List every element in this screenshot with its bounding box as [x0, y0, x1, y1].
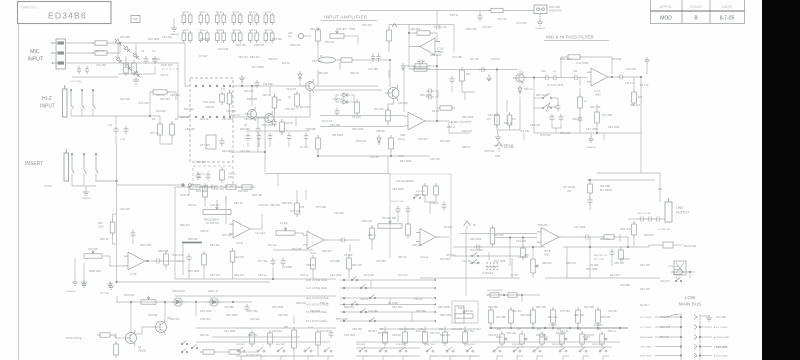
resistor R97	[200, 350, 217, 354]
svg-text:63V: 63V	[228, 176, 233, 179]
wire bottom stub 14	[536, 356, 538, 360]
wire locut left vert	[533, 78, 535, 134]
svg-text:PAD SW: PAD SW	[161, 63, 173, 67]
wire drive down a	[566, 247, 568, 278]
junction bus R 4	[699, 354, 701, 356]
capacitor C11 supply	[232, 31, 242, 44]
wire ret bottom	[117, 281, 271, 283]
connector J5 line out jack	[665, 198, 672, 222]
svg-text:R64 33p: R64 33p	[547, 105, 557, 109]
resistor R5	[158, 121, 163, 138]
gain pot pad r1p4	[216, 85, 218, 87]
svg-text:MUTE SW: MUTE SW	[684, 244, 697, 248]
wire mute fet rail	[450, 69, 518, 71]
svg-text:R59 N15: R59 N15	[600, 315, 611, 319]
svg-text:R92 4K7: R92 4K7	[630, 103, 641, 107]
resistor R85	[490, 225, 495, 247]
wire r75 up	[296, 190, 298, 200]
capacitor C33	[617, 75, 625, 80]
wire q4 q5 link	[135, 327, 155, 334]
wire mute rail	[563, 246, 649, 248]
wire c71 stub	[258, 142, 260, 147]
capacitor C16	[256, 126, 261, 134]
wire bottom stub 11	[469, 356, 471, 360]
wire to line out vert	[640, 133, 642, 173]
wire bl rail	[116, 301, 252, 303]
svg-text:FX 2 SEND: FX 2 SEND	[640, 327, 652, 329]
wire stub 24	[236, 327, 336, 329]
capacitor C41	[154, 259, 162, 264]
diode D11 mute	[518, 85, 522, 95]
aux arrow 3	[433, 297, 436, 300]
switch aux 2	[360, 285, 367, 289]
junction bus L 4	[680, 345, 682, 347]
wire bottom stub 8	[402, 356, 404, 360]
resistor R122 fader net	[423, 329, 428, 346]
svg-text:C19 4K7: C19 4K7	[418, 137, 429, 141]
svg-text:IC14 100R: IC14 100R	[576, 61, 589, 65]
svg-text:C22 22K: C22 22K	[120, 207, 130, 211]
wire stub 32	[95, 180, 117, 182]
svg-text:MAIN BUS: MAIN BUS	[679, 302, 701, 307]
svg-text:IC8 100R: IC8 100R	[332, 133, 343, 137]
potentiometer VR15 row B	[580, 331, 588, 347]
svg-text:C87 68K: C87 68K	[376, 259, 386, 263]
wire stub 3	[339, 62, 341, 70]
ground mf	[495, 134, 501, 140]
potentiometer VR3 gain	[319, 57, 336, 63]
junction bus L 2	[680, 326, 682, 328]
diode D1 rf clamp	[113, 37, 123, 47]
wire drive vert2	[511, 258, 513, 278]
svg-text:R95 10K: R95 10K	[574, 313, 584, 317]
capacitor C10 supply	[216, 31, 226, 44]
capacitor C70 decouple	[246, 133, 251, 141]
svg-text:C98 1K: C98 1K	[200, 229, 209, 233]
svg-text:R28 15K: R28 15K	[538, 223, 548, 227]
wire bus out 1	[700, 326, 712, 328]
wire mf gnd stub	[497, 130, 498, 134]
svg-text:C34 1u: C34 1u	[360, 297, 369, 301]
wire c33 to node	[624, 76, 641, 78]
junction filter out	[611, 76, 613, 78]
svg-text:C34 68K: C34 68K	[282, 265, 292, 269]
wire ladder drop 4	[552, 326, 554, 328]
junction q4	[130, 301, 132, 303]
wire caps feed	[628, 218, 639, 220]
svg-text:R47 100R: R47 100R	[252, 65, 264, 69]
junction feed	[589, 179, 591, 181]
svg-text:R32 4K7: R32 4K7	[160, 97, 171, 101]
svg-text:C70 4K7: C70 4K7	[482, 25, 493, 29]
svg-text:IC2-A: IC2-A	[310, 252, 317, 255]
wire mic cold	[66, 62, 171, 64]
wire eq3 out	[436, 236, 449, 238]
gain pot pad r2p4	[216, 116, 218, 118]
svg-text:R29 1K: R29 1K	[350, 71, 359, 75]
capacitor C13 supply	[264, 31, 274, 44]
wire ladder drop 5	[577, 326, 579, 328]
wire r66 top	[113, 214, 117, 219]
black margin bar right	[762, 0, 800, 360]
capacitor C6 supply	[249, 13, 259, 26]
wire stub 15	[305, 190, 307, 200]
diode D4 rf clamp	[114, 55, 124, 65]
svg-text:R23 100K: R23 100K	[226, 313, 238, 317]
fader pad grid	[486, 262, 498, 270]
wire mic mid	[66, 52, 96, 54]
svg-text:D12 1u: D12 1u	[268, 243, 277, 247]
svg-text:R61 47u: R61 47u	[250, 55, 260, 59]
svg-text:▶ RIGHT MAIN: ▶ RIGHT MAIN	[714, 336, 730, 339]
bus arrow 2	[694, 325, 697, 330]
junction aux 4	[343, 303, 345, 305]
svg-text:R47 1u: R47 1u	[96, 49, 105, 53]
wire hi-z drop 2	[81, 109, 83, 117]
ground chassis grid	[171, 25, 177, 31]
wire aux bus 1	[340, 279, 433, 281]
svg-text:C17 1u: C17 1u	[560, 329, 569, 333]
svg-text:SW6 MIX: SW6 MIX	[396, 344, 406, 346]
op-amp IC3-A	[587, 68, 612, 86]
svg-text:BAL DRIVE: BAL DRIVE	[600, 189, 612, 192]
switch aux 6	[369, 318, 376, 322]
capacitor C9 supply	[199, 31, 209, 44]
gain pot dashed box	[190, 78, 233, 162]
wire r68 link	[204, 199, 206, 207]
svg-text:PAN: PAN	[458, 306, 464, 310]
wire grid gnd stub	[173, 18, 175, 25]
capacitor C22B	[434, 25, 442, 29]
wire stub 14	[225, 196, 227, 204]
wire sw3 link	[551, 98, 558, 103]
svg-text:R74 1u: R74 1u	[498, 17, 507, 21]
svg-text:J5 TRS OUT: J5 TRS OUT	[658, 229, 671, 231]
wire low rail	[318, 155, 430, 157]
resistor R74	[202, 251, 207, 268]
resistor R12B	[280, 119, 285, 135]
wire eq rail mid2	[273, 249, 313, 251]
svg-text:FX 1 SEND: FX 1 SEND	[640, 317, 652, 319]
wire c70 stub	[247, 142, 249, 147]
wire fb loop left	[561, 57, 565, 78]
svg-text:C8 68K: C8 68K	[344, 253, 353, 257]
wire hpf to mid	[449, 121, 470, 133]
svg-text:R28 68K: R28 68K	[306, 127, 316, 131]
wire r42 lead	[633, 77, 635, 89]
transistor Q3	[385, 85, 399, 101]
wire stub 1	[269, 86, 271, 96]
junction ret bot	[115, 281, 117, 283]
svg-text:C83 0R: C83 0R	[392, 333, 401, 337]
wire ic1b bottom rail	[409, 68, 450, 71]
wire r12 down	[274, 108, 276, 118]
svg-text:R36 100K: R36 100K	[140, 243, 152, 247]
aux mix box	[455, 306, 464, 323]
insert contact 3	[95, 153, 98, 173]
wire gain out hot	[233, 85, 258, 87]
svg-text:AUX 2 (PRE) FADE: AUX 2 (PRE) FADE	[306, 287, 327, 290]
wire c39 dn	[589, 204, 591, 210]
svg-text:IC79 10K: IC79 10K	[540, 133, 551, 137]
resistor R110	[316, 329, 321, 348]
svg-text:R93 R94 MUTE: R93 R94 MUTE	[487, 290, 503, 292]
wire r32 link	[462, 84, 475, 92]
svg-text:R89 2K2: R89 2K2	[270, 203, 281, 207]
svg-text:R1 2K2: R1 2K2	[640, 303, 649, 307]
wire aux drop c	[411, 312, 413, 321]
resistor R86	[521, 245, 526, 260]
gain pot pad r1p5	[223, 85, 225, 87]
svg-text:C10 N47: C10 N47	[518, 255, 529, 259]
resistor R94	[505, 293, 520, 297]
svg-text:R MAIN: R MAIN	[594, 324, 603, 327]
svg-text:LMF EQ BAND: LMF EQ BAND	[396, 179, 414, 183]
svg-text:C16 2K2: C16 2K2	[234, 255, 245, 259]
resistor R4 mic filter	[132, 60, 137, 76]
wire ic5b rail2	[495, 237, 537, 239]
svg-text:R94 N47: R94 N47	[296, 301, 307, 305]
svg-text:C51 33p: C51 33p	[162, 35, 172, 39]
svg-text:C46 0R: C46 0R	[608, 309, 617, 313]
wire fb right	[430, 65, 437, 67]
ground filter low	[588, 136, 594, 142]
svg-text:R58 1K: R58 1K	[306, 263, 315, 267]
wire bus in 4	[655, 346, 681, 348]
resistor R6	[170, 121, 175, 138]
ground vr4 b	[81, 279, 87, 285]
svg-text:C27 100R: C27 100R	[586, 127, 598, 131]
svg-text:ED34B6: ED34B6	[48, 11, 87, 21]
svg-text:R44 100R: R44 100R	[586, 267, 598, 271]
svg-text:D75 68K: D75 68K	[560, 309, 570, 313]
junction bus R 2	[699, 336, 701, 338]
pad circle b	[189, 184, 192, 187]
svg-text:INPUT AMPLIFIER: INPUT AMPLIFIER	[324, 15, 368, 20]
resistor R103 ladder	[551, 307, 556, 326]
switch row bottom 13	[513, 347, 523, 356]
resistor R22	[387, 27, 392, 44]
op-amp IC1-B	[409, 38, 440, 55]
gain pot pad r2p5	[223, 116, 225, 118]
junction fb	[436, 120, 438, 122]
capacitor C14 blk	[124, 126, 129, 134]
svg-text:R61 1K: R61 1K	[660, 335, 669, 339]
aux arrow 2	[433, 287, 436, 290]
wire r124 up	[464, 326, 466, 329]
ground bl2	[107, 281, 113, 287]
wire ladder drop 6	[597, 326, 599, 328]
svg-text:C25 2K2: C25 2K2	[626, 67, 637, 71]
junction q5	[164, 301, 166, 303]
wire r43 lead dn	[579, 108, 581, 115]
wire r44 bottom	[596, 126, 598, 133]
wire r73 down	[232, 265, 234, 279]
svg-text:LEFT MAIN: LEFT MAIN	[640, 346, 652, 349]
wire mic hot to pad	[110, 42, 170, 44]
svg-text:C8 N15: C8 N15	[352, 115, 361, 119]
svg-text:R86 2K2: R86 2K2	[282, 201, 293, 205]
wire fader feed rail	[587, 179, 655, 181]
resistor R27	[316, 135, 321, 152]
svg-text:IC16 1K: IC16 1K	[180, 193, 190, 197]
wire r67 out	[175, 260, 183, 262]
wire filter low rail	[534, 132, 641, 134]
svg-text:OUTPUT: OUTPUT	[676, 211, 689, 215]
svg-text:R75 15K: R75 15K	[316, 205, 326, 209]
diode D2 rf clamp	[122, 44, 132, 54]
bus arrow 4	[694, 344, 697, 349]
svg-text:D30 10K: D30 10K	[278, 313, 288, 317]
pan pot box	[452, 301, 478, 323]
wire eq3 link1	[397, 215, 399, 222]
wire hi-z drop 3	[92, 109, 94, 117]
wire hiz mid link	[115, 116, 117, 125]
switch row bottom 3	[277, 347, 287, 356]
svg-text:R77 33p: R77 33p	[258, 259, 268, 263]
wire mic mid join	[110, 43, 120, 53]
capacitor C8 supply	[182, 31, 192, 44]
svg-text:AUX 1 (PRE) FADE: AUX 1 (PRE) FADE	[306, 279, 327, 282]
svg-text:R81 2K2: R81 2K2	[392, 305, 403, 309]
svg-text:R74 33p: R74 33p	[612, 57, 622, 61]
svg-text:CHASSIS: CHASSIS	[66, 290, 76, 293]
switch row bottom 17	[599, 347, 609, 356]
svg-text:C52 N47 C53: C52 N47 C53	[390, 201, 404, 203]
wire bottom stub 2	[260, 356, 262, 360]
wire q1 emitter	[256, 118, 265, 152]
transistor Q5	[153, 319, 167, 335]
svg-text:CHASSIS: CHASSIS	[586, 146, 596, 149]
junction gain c	[264, 151, 266, 153]
wire d11 dn	[519, 97, 521, 130]
resistor R83 lmf	[434, 183, 439, 198]
svg-text:R12: R12	[277, 99, 282, 102]
connector J1 pin 3	[52, 61, 64, 64]
resistor R80	[370, 225, 375, 242]
wire r98 out	[243, 351, 258, 353]
svg-text:R56 N15: R56 N15	[158, 249, 169, 253]
svg-text:R62 22K: R62 22K	[310, 27, 320, 31]
capacitor C50	[339, 238, 347, 243]
svg-text:C32: C32	[573, 70, 578, 73]
insert contact 2	[83, 153, 86, 173]
svg-text:AUX 3 (POST) FADE: AUX 3 (POST) FADE	[306, 297, 329, 300]
test point TP1 box	[131, 16, 140, 23]
svg-text:D84 33p: D84 33p	[548, 315, 558, 319]
svg-text:R18 1u: R18 1u	[447, 125, 456, 129]
svg-text:R68B 100K: R68B 100K	[89, 271, 101, 273]
svg-text:4580: 4580	[544, 254, 550, 257]
gain pot pad r2p6	[229, 116, 231, 118]
capacitor C2b xlr	[85, 66, 89, 74]
transistor Q1B	[262, 111, 274, 125]
svg-text:R28 10K: R28 10K	[247, 97, 257, 101]
wire stub 17	[465, 247, 467, 256]
wire r95 up	[115, 333, 117, 338]
switch aux 3	[369, 295, 376, 299]
svg-text:R73 0R: R73 0R	[660, 315, 669, 319]
resistor R77	[347, 255, 352, 272]
svg-text:INSERT: INSERT	[25, 161, 43, 167]
svg-text:R42 100K: R42 100K	[148, 37, 160, 41]
wire pre bus drop	[689, 272, 691, 278]
wire q4 up	[130, 302, 132, 332]
wire ladder drop 3	[532, 326, 534, 328]
svg-text:PK: PK	[473, 224, 477, 227]
svg-text:D20 22K: D20 22K	[238, 189, 248, 193]
junction fader	[532, 246, 534, 248]
wire eq vert b	[261, 214, 263, 229]
potentiometer VR13 row B	[540, 331, 548, 347]
svg-text:R64 4K7: R64 4K7	[644, 233, 655, 237]
wire bb link	[317, 348, 319, 356]
wire insert drop 3	[95, 174, 97, 182]
wire stub 13	[188, 187, 190, 196]
wire d7 to q2	[300, 82, 306, 86]
capacitor C60	[245, 304, 250, 312]
aux arrow 4	[433, 303, 436, 306]
svg-text:D22 33p: D22 33p	[272, 329, 282, 333]
wire c72 stub	[269, 142, 271, 147]
svg-text:D79 68K: D79 68K	[330, 259, 340, 263]
svg-text:D12 68K: D12 68K	[504, 145, 514, 149]
svg-text:C30 33p: C30 33p	[250, 317, 260, 321]
svg-text:R86 4K7: R86 4K7	[180, 223, 191, 227]
resistor R101 ladder	[509, 307, 514, 326]
wire ic5b in	[460, 233, 537, 235]
wire q1 up	[251, 86, 253, 106]
svg-text:C51 100K: C51 100K	[330, 273, 342, 277]
svg-text:8-7-05: 8-7-05	[720, 16, 735, 22]
wire rail B	[360, 10, 491, 12]
junction bus R 3	[699, 345, 701, 347]
wire locut caps	[552, 123, 561, 128]
capacitor C58	[610, 249, 615, 257]
wire stub 7	[419, 64, 421, 70]
junction aux 3	[343, 297, 345, 299]
ground phantom	[537, 19, 543, 25]
wire vr4 to op	[102, 256, 124, 266]
eq zero bus mark	[182, 242, 202, 244]
wire post eq rail	[453, 246, 545, 248]
svg-text:R75: R75	[300, 207, 305, 209]
wire eq left vert	[174, 187, 176, 279]
svg-text:HI-Z: HI-Z	[42, 96, 52, 102]
wire lmf link	[425, 198, 436, 202]
wire bottom stub 12	[496, 356, 498, 360]
svg-text:LO CUT 75HZ: LO CUT 75HZ	[547, 84, 563, 87]
junction gain b	[251, 85, 253, 87]
resistor R25	[386, 107, 391, 124]
svg-text:D3 22K: D3 22K	[444, 225, 453, 229]
svg-text:C7 47u: C7 47u	[300, 145, 309, 149]
resistor R1	[92, 41, 110, 45]
svg-text:C30: C30	[541, 70, 546, 73]
svg-text:R21 4K7: R21 4K7	[610, 273, 621, 277]
resistor R71	[223, 185, 239, 189]
svg-text:R1 100R: R1 100R	[486, 265, 496, 269]
svg-text:C69 1K: C69 1K	[160, 73, 169, 77]
svg-text:IC40 4K7: IC40 4K7	[336, 27, 347, 31]
wire drive down b	[589, 237, 591, 278]
wire gnd drop filter	[646, 64, 648, 74]
wire post rail	[453, 255, 520, 257]
potentiometer VR16 row B	[600, 331, 608, 347]
wire r5 r6 link	[160, 138, 172, 144]
wire filter to op	[579, 77, 587, 79]
wire pre bus rail	[672, 271, 695, 273]
